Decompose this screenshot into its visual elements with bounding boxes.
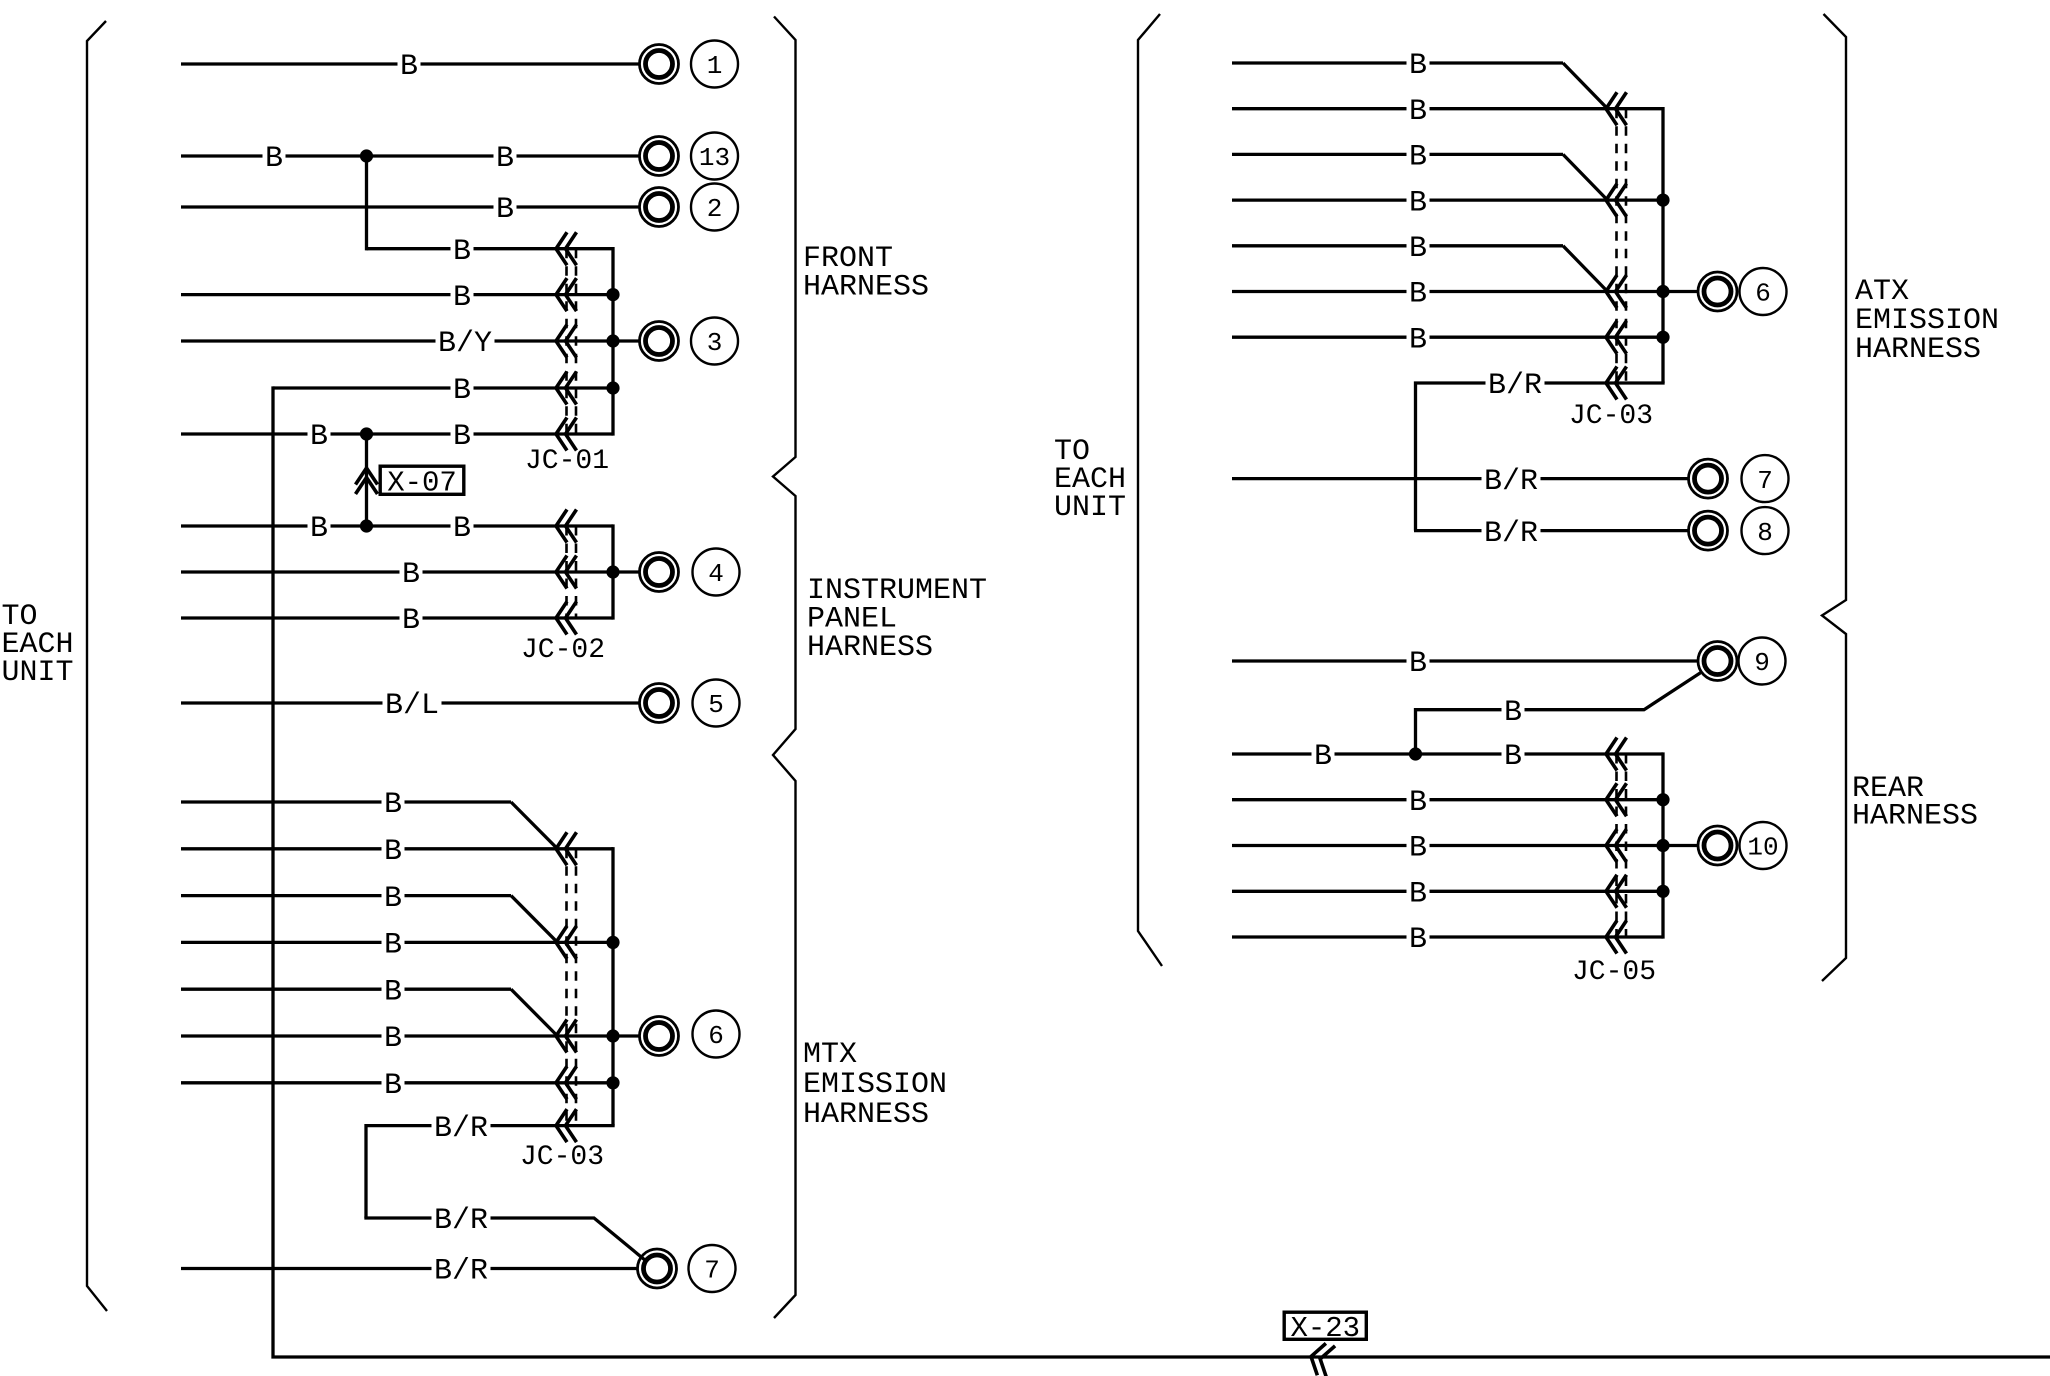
ground 2 xyxy=(640,188,679,227)
wire label B (ground 2 wire) xyxy=(494,193,517,227)
wire label B (REAR row 4) xyxy=(1407,786,1430,820)
wire label B (MTX row 1) xyxy=(382,788,405,822)
junction dot MTX row 7 bus xyxy=(606,1076,619,1089)
svg-text:B: B xyxy=(1504,740,1522,774)
wire stub ground 10 xyxy=(1663,844,1698,847)
wire label B (REAR row 6) xyxy=(1407,877,1430,911)
junction dot ATX row 6 bus xyxy=(1656,285,1669,298)
svg-text:4: 4 xyxy=(708,559,724,589)
wire REAR row 3 (B) xyxy=(1232,752,1663,755)
svg-text:B: B xyxy=(310,512,328,546)
wire MTX row 3 (B, diagonal to bus) xyxy=(181,894,511,897)
wire label B (MTX row 4) xyxy=(382,928,405,962)
wire JC-02 pin 2 to ground 4 xyxy=(181,570,613,573)
wire stub ground 3 xyxy=(613,339,639,342)
svg-text:HARNESS: HARNESS xyxy=(807,631,933,665)
svg-text:B: B xyxy=(453,420,471,454)
JC-03 right chevron B/R row xyxy=(1606,367,1627,400)
wire label B/R (middle row) xyxy=(432,1204,491,1238)
wire B to ground 13 (left segment) xyxy=(181,154,639,157)
JC-05 chevron row 4 xyxy=(1606,783,1627,816)
svg-text:B: B xyxy=(400,50,418,84)
svg-text:9: 9 xyxy=(1754,648,1770,678)
wire label B/R (bottom row) xyxy=(432,1255,491,1289)
junction dot JC-02 pin 2 bus xyxy=(606,565,619,578)
junction connector JC-02 bus xyxy=(611,524,614,619)
svg-text:HARNESS: HARNESS xyxy=(803,1098,929,1132)
svg-text:B/R: B/R xyxy=(434,1255,488,1289)
wire REAR row 2 (B, corner to ground 9) xyxy=(1416,673,1701,754)
svg-text:B: B xyxy=(402,604,420,638)
right bracket (to each unit, right side) xyxy=(1138,14,1162,966)
ground 6 (left) xyxy=(640,1017,679,1056)
wire MTX row 2 (B) xyxy=(181,847,613,850)
JC-03 left chevron row 4 xyxy=(556,926,577,959)
wire label B (right of junction, ground 13 wire) xyxy=(494,142,517,176)
junction dot REAR row 5 bus xyxy=(1656,839,1669,852)
ground 3 xyxy=(640,322,679,361)
wire label B (ATX row 3) xyxy=(1407,140,1430,174)
pin number 5 xyxy=(693,680,740,727)
wire label B (left, JC-02 pin 1) xyxy=(308,512,331,546)
svg-text:JC-05: JC-05 xyxy=(1572,957,1656,988)
wire label B (ATX row 2) xyxy=(1407,95,1430,129)
ATX/REAR harness brace xyxy=(1822,14,1846,981)
wire REAR row 5 (B) to ground 10 xyxy=(1232,844,1663,847)
wire B/R middle row to ground 7 xyxy=(366,1216,646,1260)
svg-text:B: B xyxy=(1409,49,1427,83)
svg-text:5: 5 xyxy=(708,690,724,720)
wire JC-01 pin 1 xyxy=(367,247,614,250)
JC-02 dashed splice lines xyxy=(567,526,577,618)
svg-text:B: B xyxy=(1409,878,1427,912)
wire JC-02 pin 3 xyxy=(181,616,613,619)
svg-text:B/R: B/R xyxy=(434,1112,488,1146)
svg-text:UNIT: UNIT xyxy=(2,656,74,690)
ground 13 xyxy=(640,137,679,176)
pin number 2 xyxy=(691,184,738,231)
junction dot ATX row 4 bus xyxy=(1656,194,1669,207)
wire from ground-13 junction down to JC-01 pin 1 xyxy=(365,154,368,250)
svg-text:B/L: B/L xyxy=(385,689,439,723)
JC-03 left chevron row 6 xyxy=(556,1020,577,1053)
svg-text:JC-02: JC-02 xyxy=(521,635,605,666)
wire label B (ground 1 wire) xyxy=(398,50,421,84)
svg-text:7: 7 xyxy=(1757,466,1773,496)
JC-03 right chevron row 4 xyxy=(1606,184,1627,217)
wire ATX row 4 (B) xyxy=(1232,198,1663,201)
svg-text:13: 13 xyxy=(699,143,730,173)
pin number 6 (left) xyxy=(693,1011,740,1058)
wire label B (JC-02 pin 3) xyxy=(400,604,423,638)
svg-text:HARNESS: HARNESS xyxy=(803,271,929,305)
svg-text:JC-03: JC-03 xyxy=(1569,401,1653,432)
svg-text:X-07: X-07 xyxy=(387,466,457,499)
wire REAR row 4 (B) xyxy=(1232,798,1663,801)
JC-01 chevron pin 2 xyxy=(556,278,577,311)
svg-text:B: B xyxy=(310,420,328,454)
wire label B (left, REAR row 3) xyxy=(1312,740,1335,774)
svg-text:B: B xyxy=(453,281,471,315)
svg-text:B: B xyxy=(1409,186,1427,220)
svg-text:B: B xyxy=(1409,323,1427,357)
wire B/R bottom row to ground 7 xyxy=(181,1267,638,1270)
JC-03 left chevron B/R row xyxy=(556,1109,577,1142)
main ground bus (vertical and bottom run to X-23) xyxy=(273,386,2050,1357)
junction dot JC-01 pin 4 bus xyxy=(606,381,619,394)
svg-text:B: B xyxy=(1409,832,1427,866)
svg-text:3: 3 xyxy=(707,328,723,358)
svg-text:B: B xyxy=(1409,786,1427,820)
JC-03 left chevron row 7 xyxy=(556,1066,577,1099)
svg-text:10: 10 xyxy=(1747,833,1778,863)
junction connector JC-03 bus (right) xyxy=(1661,107,1664,383)
junction dot on ground 13 wire xyxy=(360,149,373,162)
ground 9 xyxy=(1698,642,1737,681)
JC-03 left dashed splice lines xyxy=(567,849,577,1126)
wire ATX row 3 (B, diagonal to bus) xyxy=(1232,153,1563,156)
svg-text:B: B xyxy=(453,374,471,408)
ground 5 xyxy=(640,684,679,723)
junction dot X-07 top xyxy=(360,427,373,440)
junction connector JC-01 bus xyxy=(611,247,614,436)
svg-text:B: B xyxy=(1409,923,1427,957)
wire MTX row 6 (B) to ground 6 xyxy=(181,1034,613,1037)
junction dot JC-01 pin 2 bus xyxy=(606,288,619,301)
JC-03 left chevron row 2 xyxy=(556,832,577,865)
junction dot MTX row 6 bus xyxy=(606,1029,619,1042)
junction dot JC-01 pin 3 bus xyxy=(606,334,619,347)
ground 10 xyxy=(1698,826,1737,865)
svg-text:B: B xyxy=(384,882,402,916)
wire label B (left of junction, ground 13 wire) xyxy=(263,142,286,176)
JC-02 chevron pin 2 xyxy=(556,556,577,589)
left bracket (to each unit, left side) xyxy=(87,21,107,1311)
svg-text:B: B xyxy=(1504,696,1522,730)
svg-text:B: B xyxy=(384,788,402,822)
svg-text:B: B xyxy=(384,835,402,869)
svg-text:B: B xyxy=(1409,95,1427,129)
wire label B (MTX row 2) xyxy=(382,835,405,869)
wire X-07 vertical xyxy=(365,432,368,527)
wire B/R to ground 8 xyxy=(1414,529,1688,532)
JC-01 dashed splice lines xyxy=(567,249,577,434)
wire MTX row 1 (B, diagonal to bus) xyxy=(181,800,511,803)
JC-05 dashed splice lines xyxy=(1617,754,1627,937)
pin number 10 xyxy=(1740,822,1787,869)
wire label B (ATX row 1) xyxy=(1407,49,1430,83)
JC-03 right chevron row 2 xyxy=(1606,92,1627,125)
svg-text:B: B xyxy=(1409,278,1427,312)
pin number 6 (right) xyxy=(1740,268,1787,315)
wire REAR row 6 (B) xyxy=(1232,890,1663,893)
pin number 9 xyxy=(1739,638,1786,685)
wire label B/R (JC-03 pin) xyxy=(432,1112,491,1146)
svg-text:B: B xyxy=(1409,141,1427,175)
svg-text:B: B xyxy=(384,1022,402,1056)
svg-text:X-23: X-23 xyxy=(1290,1312,1360,1345)
svg-text:B: B xyxy=(1409,232,1427,266)
wire label B (right, JC-01 pin 5) xyxy=(451,420,474,454)
wire B/Y JC-01 pin 3 to ground 3 xyxy=(181,339,613,342)
wire B to ground 9 xyxy=(1232,659,1697,662)
svg-text:7: 7 xyxy=(704,1256,720,1286)
wire label B (MTX row 3) xyxy=(382,882,405,916)
ground 7 (left) xyxy=(638,1249,677,1288)
svg-text:6: 6 xyxy=(708,1021,724,1051)
JC-03 right chevron row 7 xyxy=(1606,321,1627,354)
wire JC-03 right B/R pin xyxy=(1416,383,1665,531)
wire B to ground 2 xyxy=(181,205,639,208)
JC-05 chevron row 6 xyxy=(1606,875,1627,908)
svg-text:1: 1 xyxy=(707,51,723,81)
JC-01 chevron pin 4 xyxy=(556,372,577,405)
X-23 chevron xyxy=(1307,1341,1335,1376)
junction dot REAR row 6 bus xyxy=(1656,885,1669,898)
JC-02 chevron pin 1 xyxy=(556,510,577,543)
wire JC-03 left B/R pin (bus corner to label row) xyxy=(366,1126,615,1218)
svg-text:B: B xyxy=(265,142,283,176)
ground 6 (right) xyxy=(1698,272,1737,311)
svg-text:B: B xyxy=(1409,647,1427,681)
junction dot REAR row 4 bus xyxy=(1656,793,1669,806)
svg-text:B: B xyxy=(496,193,514,227)
svg-text:B: B xyxy=(384,929,402,963)
svg-text:B: B xyxy=(384,975,402,1009)
wire MTX row 4 (B) xyxy=(181,941,613,944)
ground 4 xyxy=(640,553,679,592)
wire label B/R (to ground 7 right) xyxy=(1482,465,1541,499)
pin number 1 xyxy=(691,41,738,88)
wire label B/L xyxy=(383,689,442,723)
svg-text:6: 6 xyxy=(1755,279,1771,309)
svg-text:2: 2 xyxy=(707,194,723,224)
wire MTX row 5 (B, diagonal to bus) xyxy=(181,988,511,991)
wire label B (left, JC-01 pin 5) xyxy=(308,420,331,454)
wire JC-01 pin 4 (from main bus) xyxy=(273,386,613,389)
connector box X-23 xyxy=(1284,1312,1366,1345)
wire ATX row 5 (B, diagonal to bus) xyxy=(1232,244,1563,247)
svg-text:B: B xyxy=(384,1069,402,1103)
svg-text:HARNESS: HARNESS xyxy=(1852,800,1978,834)
wire label B (right, JC-02 pin 1) xyxy=(451,512,474,546)
ground 8 xyxy=(1689,511,1728,550)
wire label B (right, REAR row 3) xyxy=(1502,740,1525,774)
svg-text:JC-01: JC-01 xyxy=(525,446,609,477)
JC-03 right dashed splice lines xyxy=(1617,109,1627,383)
svg-text:B: B xyxy=(453,512,471,546)
svg-text:UNIT: UNIT xyxy=(1054,491,1126,525)
svg-text:EMISSION: EMISSION xyxy=(803,1068,947,1102)
pin number 13 xyxy=(691,133,738,180)
svg-text:B: B xyxy=(453,235,471,269)
X-07 chevron xyxy=(356,468,378,494)
connector box X-07 xyxy=(380,466,464,499)
wire B/R to ground 7 (right) xyxy=(1232,477,1688,480)
wire label B/R (to ground 8) xyxy=(1482,517,1541,551)
svg-text:B/R: B/R xyxy=(1484,517,1538,551)
wire B to ground 1 xyxy=(181,62,639,65)
svg-text:B: B xyxy=(496,142,514,176)
JC-02 chevron pin 3 xyxy=(556,602,577,635)
wire ATX row 2 (B) xyxy=(1232,107,1663,110)
ground 7 (right) xyxy=(1689,459,1728,498)
svg-text:B: B xyxy=(1314,740,1332,774)
pin number 7 (left) xyxy=(689,1245,736,1292)
wire MTX row 7 (B) xyxy=(181,1081,613,1084)
wire JC-02 pin 1 xyxy=(181,524,613,527)
svg-text:B/R: B/R xyxy=(1488,369,1542,403)
JC-05 chevron row 7 xyxy=(1606,921,1627,954)
wire label B/R (JC-03 right pin) xyxy=(1486,369,1545,403)
junction dot MTX row 4 bus xyxy=(606,936,619,949)
wire label B (ATX row 5) xyxy=(1407,232,1430,266)
junction dot X-07 bottom xyxy=(360,519,373,532)
junction dot REAR row 3 xyxy=(1409,747,1422,760)
front/instrument/MTX harness brace xyxy=(773,17,796,1319)
pin number 4 xyxy=(693,549,740,596)
svg-text:8: 8 xyxy=(1757,518,1773,548)
svg-text:B: B xyxy=(402,558,420,592)
wire label B (MTX row 7) xyxy=(382,1069,405,1103)
wire stub ground 6 (right) xyxy=(1663,290,1698,293)
wire label B/Y xyxy=(436,327,495,361)
JC-01 chevron pin 5 xyxy=(556,418,577,451)
wire label B (REAR row 2) xyxy=(1502,696,1525,730)
wire label B (ATX row 6) xyxy=(1407,278,1430,312)
wire label B (JC-01 pin 2) xyxy=(451,281,474,315)
wire stub ground 6 (left) xyxy=(613,1034,639,1037)
svg-text:MTX: MTX xyxy=(803,1038,857,1072)
wire label B (REAR row 7) xyxy=(1407,923,1430,957)
wire REAR row 7 (B) xyxy=(1232,935,1663,938)
wire label B (REAR row 5) xyxy=(1407,832,1430,866)
wire stub ground 4 xyxy=(613,570,639,573)
JC-01 chevron pin 1 xyxy=(556,232,577,265)
pin number 8 xyxy=(1742,507,1789,554)
svg-text:B/R: B/R xyxy=(1484,465,1538,499)
JC-05 chevron row 5 xyxy=(1606,829,1627,862)
wire ATX row 7 (B) xyxy=(1232,336,1663,339)
wire ATX row 1 (B, diagonal to bus) xyxy=(1232,61,1563,64)
svg-text:B/R: B/R xyxy=(434,1204,488,1238)
wire label B (ATX row 4) xyxy=(1407,186,1430,220)
wire B/L to ground 5 xyxy=(181,701,639,704)
wire label B (ground 9 wire) xyxy=(1407,647,1430,681)
wire label B (MTX row 5) xyxy=(382,975,405,1009)
JC-01 chevron pin 3 xyxy=(556,325,577,358)
wire JC-01 pin 2 xyxy=(181,293,613,296)
junction connector JC-03 bus (left) xyxy=(611,847,614,1125)
pin number 7 (right) xyxy=(1742,455,1789,502)
ground 1 xyxy=(640,45,679,84)
wire label B (MTX row 6) xyxy=(382,1022,405,1056)
wire label B (JC-02 pin 2) xyxy=(400,558,423,592)
wire label B (JC-01 pin 1) xyxy=(451,235,474,269)
svg-text:JC-03: JC-03 xyxy=(520,1142,604,1173)
wire label B (JC-01 pin 4) xyxy=(451,374,474,408)
wire label B (ATX row 7) xyxy=(1407,323,1430,357)
svg-text:HARNESS: HARNESS xyxy=(1855,333,1981,367)
pin number 3 xyxy=(691,318,738,365)
wire ATX row 6 (B) to ground 6 xyxy=(1232,290,1663,293)
junction dot ATX row 7 bus xyxy=(1656,331,1669,344)
JC-03 right chevron row 6 xyxy=(1606,275,1627,308)
svg-text:B/Y: B/Y xyxy=(438,327,492,361)
wire JC-01 pin 5 xyxy=(181,432,613,435)
JC-05 chevron row 3 xyxy=(1606,738,1627,771)
junction connector JC-05 bus xyxy=(1661,752,1664,938)
